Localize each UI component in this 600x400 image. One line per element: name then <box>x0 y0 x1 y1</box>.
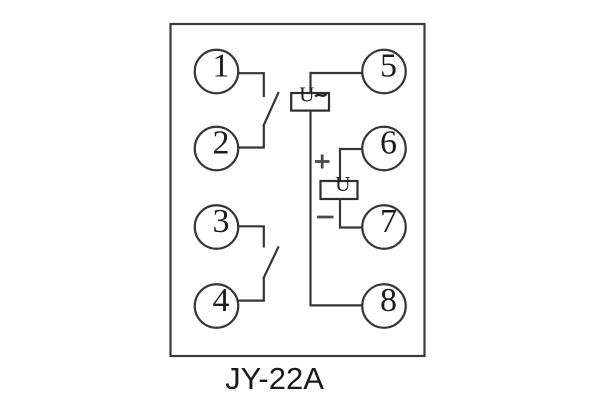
svg-text:U: U <box>299 83 314 107</box>
wire: terminal 5 to coil U1 <box>311 73 363 93</box>
component U2 box <box>321 181 358 199</box>
terminal 5 <box>362 48 406 94</box>
wire: terminal 2 to contact K1 hinge <box>238 126 264 148</box>
relay case outline <box>171 24 425 356</box>
terminal 3 <box>195 203 239 249</box>
svg-text:JY-22A: JY-22A <box>225 361 324 396</box>
terminal 1 <box>195 48 239 94</box>
terminal 7 <box>362 203 406 249</box>
minus polarity mark <box>317 216 334 219</box>
coil U1 box <box>291 93 329 111</box>
terminal 8 <box>362 282 406 328</box>
terminal 6 <box>362 125 406 171</box>
svg-text:4: 4 <box>213 282 230 319</box>
wire: coil U1 down to terminal 8 <box>311 111 363 306</box>
wire: terminal 6 to component U2 <box>340 149 362 181</box>
plus polarity mark <box>315 155 330 169</box>
wire: terminal 3 to contact K2 fixed end <box>238 226 264 247</box>
wire: terminal 1 to contact K1 fixed end <box>238 73 264 97</box>
wire: component U2 to terminal 7 <box>340 199 362 228</box>
svg-text:8: 8 <box>380 282 397 319</box>
wire: terminal 4 to contact K2 hinge <box>238 278 264 301</box>
svg-text:2: 2 <box>213 125 230 162</box>
svg-text:5: 5 <box>380 48 397 85</box>
contact K2 blade <box>263 246 279 278</box>
svg-text:7: 7 <box>380 203 397 240</box>
terminal 4 <box>195 282 239 328</box>
svg-text:6: 6 <box>380 125 397 162</box>
terminal 2 <box>195 125 239 171</box>
svg-text:3: 3 <box>213 203 230 240</box>
svg-text:U: U <box>335 172 350 196</box>
coil U1 label tilde mark <box>315 94 326 97</box>
svg-text:1: 1 <box>213 48 230 85</box>
contact K1 blade <box>263 92 279 126</box>
